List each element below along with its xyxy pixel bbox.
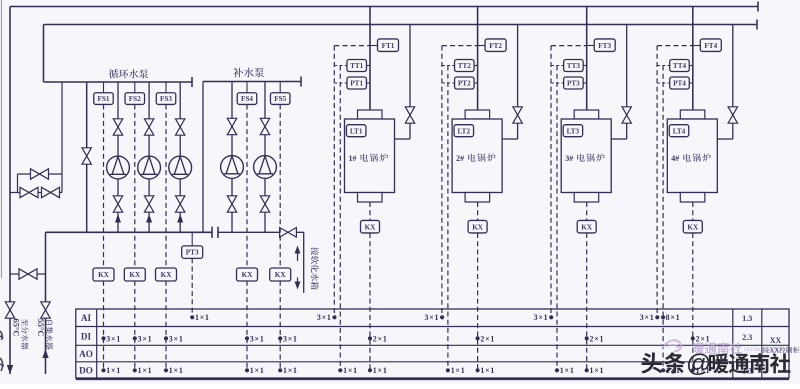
- svg-text:3×1: 3×1: [283, 334, 298, 343]
- svg-text:FS3: FS3: [160, 95, 172, 103]
- valve circ pump 2 discharge: [144, 119, 153, 135]
- svg-text:FS2: FS2: [129, 95, 141, 103]
- valve makeup pump 5 discharge: [260, 118, 269, 134]
- junction unit3 B DO 1x1: [555, 368, 559, 372]
- svg-text:1#: 1#: [349, 154, 357, 163]
- wire circ pump branch 2: [148, 82, 150, 232]
- circ header end tick: [191, 77, 193, 87]
- wire lower crossover: [10, 273, 46, 275]
- svg-text:TT3: TT3: [567, 62, 581, 70]
- boiler unit 4 dashed enclosure top: [657, 45, 693, 47]
- valve makeup pump 5 suction: [260, 196, 269, 212]
- boiler 1 top flange: [358, 110, 383, 119]
- junction unit4 B DO 1x1: [661, 368, 665, 372]
- pump P5 makeup: [254, 156, 277, 179]
- relay KX pump 4: [237, 268, 258, 281]
- valve bypass bottom 1: [20, 187, 38, 197]
- signal bus wire unit 3: [556, 66, 558, 371]
- valve bypass top: [31, 169, 49, 179]
- crop artifact faint line left: [1, 0, 3, 278]
- flow transmitter FT3: [594, 39, 615, 52]
- svg-text:1×1: 1×1: [451, 366, 466, 375]
- signal wire boiler 2 KX: [477, 202, 479, 221]
- svg-text:KX: KX: [161, 271, 173, 279]
- relay KX boiler 4: [683, 220, 702, 233]
- stub TT4 right: [689, 65, 693, 67]
- svg-text:TT1: TT1: [350, 62, 364, 70]
- junction FS DO 1x1: [164, 368, 168, 372]
- junction boiler3 DI 2x1: [585, 336, 589, 340]
- boiler 4 body: [667, 119, 717, 193]
- svg-text:KX: KX: [275, 271, 287, 279]
- svg-text:LT4: LT4: [673, 127, 686, 135]
- wire boiler 4 outlet pipe: [692, 7, 694, 111]
- wire makeup pump branch 4: [231, 82, 233, 233]
- table label column divider: [96, 309, 98, 378]
- stub FS4: [246, 82, 248, 93]
- stub TT3 left: [551, 65, 564, 67]
- svg-text:PT4: PT4: [673, 80, 686, 88]
- svg-text:3×1: 3×1: [425, 313, 440, 322]
- arrow supply down: [7, 365, 13, 374]
- watermark toutiao 头条@暖通南社: [641, 352, 662, 373]
- valve makeup pump 4 discharge: [227, 118, 236, 134]
- stub TT1 left: [334, 65, 347, 67]
- temperature transmitter TT2: [455, 60, 475, 72]
- bypass loop top wire: [18, 173, 63, 175]
- pressure transmitter PT3: [564, 77, 584, 89]
- wire makeup pump branch 5: [264, 82, 266, 233]
- svg-text:PT1: PT1: [350, 80, 363, 88]
- level transmitter LT4: [669, 125, 689, 137]
- makeup header end tick: [300, 77, 302, 87]
- stub PT2 left: [442, 82, 455, 84]
- pressure transmitter PT2: [455, 77, 475, 89]
- wire boiler 3 inlet elbow: [611, 138, 627, 140]
- return header end tick: [756, 20, 758, 30]
- junction boiler2 KX DO 1x1: [476, 368, 480, 372]
- pressure transmitter PT4: [670, 77, 690, 89]
- svg-text:@: @: [686, 350, 711, 378]
- junction FS DI 3x1: [278, 336, 282, 340]
- stub TT4 left: [657, 65, 670, 67]
- faint watermark swirl: [662, 340, 681, 351]
- svg-text:KX: KX: [242, 271, 254, 279]
- stub PT1 right: [367, 82, 371, 84]
- arrow flow up branch 2: [146, 214, 152, 223]
- wire boiler 1 inlet elbow: [395, 138, 411, 140]
- level transmitter LT3: [563, 125, 583, 137]
- stub PT3 right: [583, 82, 587, 84]
- signal wire boiler 1 KX: [369, 202, 371, 221]
- svg-text:1×1: 1×1: [169, 366, 184, 375]
- relay KX boiler 3: [577, 220, 596, 233]
- junction unit3 AI 3x1: [549, 315, 553, 319]
- wire boiler 2 outlet pipe: [477, 7, 479, 111]
- boiler unit 1 dashed enclosure top: [334, 45, 370, 47]
- valve boiler 1 inlet: [405, 107, 414, 123]
- wire makeup suction header: [218, 231, 304, 233]
- wire pump discharge riser: [43, 25, 45, 83]
- pump P4 makeup: [221, 156, 244, 179]
- faint watermark text: [693, 342, 742, 354]
- wire return pipe 55C left: [45, 232, 47, 374]
- svg-text:FT1: FT1: [382, 42, 395, 50]
- svg-text:FS1: FS1: [98, 95, 110, 103]
- svg-text:4#: 4#: [671, 154, 679, 163]
- wire makeup discharge drop pipe: [202, 82, 204, 233]
- svg-text:AI: AI: [81, 313, 92, 323]
- valve boiler 4 inlet: [728, 107, 737, 123]
- table row line 2: [76, 326, 789, 328]
- boiler unit 2 dashed enclosure left: [441, 46, 443, 317]
- svg-text:XX: XX: [770, 336, 782, 345]
- stub FS2: [134, 82, 136, 93]
- stub TT1 right: [367, 65, 371, 67]
- temperature transmitter TT1: [347, 60, 367, 72]
- svg-text:65°C: 65°C: [12, 319, 22, 337]
- wire return header: [44, 24, 758, 26]
- junction FS DO 1x1: [133, 368, 137, 372]
- junction FS DI 3x1: [133, 336, 137, 340]
- junction unit4 AI 8x1: [661, 315, 665, 319]
- temperature transmitter TT4: [670, 60, 690, 72]
- valve circ pump 3 suction: [176, 196, 185, 212]
- terminal table frame: [76, 309, 789, 378]
- stub TT2 left: [442, 65, 455, 67]
- wire circ suction header: [46, 231, 213, 233]
- svg-text:3×1: 3×1: [640, 313, 655, 322]
- flow switch FS4: [237, 93, 257, 105]
- svg-text:(ID:nuantong): (ID:nuantong): [744, 347, 781, 353]
- valve makeup tank isolation: [280, 228, 297, 238]
- signal bus wire unit 4: [662, 66, 664, 371]
- label 自集水器: [46, 320, 53, 349]
- svg-text:1×1: 1×1: [250, 366, 265, 375]
- boiler unit 1 dashed enclosure left: [333, 46, 335, 317]
- level transmitter LT1: [346, 125, 366, 137]
- boiler unit 4 dashed enclosure left: [656, 46, 658, 317]
- junction boiler3 KX DO 1x1: [585, 368, 589, 372]
- svg-text:KX: KX: [472, 223, 484, 231]
- stub FS5: [279, 82, 281, 93]
- svg-text:FT3: FT3: [598, 42, 611, 50]
- svg-text:TT4: TT4: [673, 62, 687, 70]
- signal bus wire unit 2: [447, 66, 449, 371]
- svg-text:3×1: 3×1: [534, 313, 549, 322]
- stub PT3 left: [551, 82, 564, 84]
- valve circ pump 3 discharge: [176, 119, 185, 135]
- valve crossover: [19, 269, 37, 279]
- junction FS DO 1x1: [101, 368, 105, 372]
- signal wire FS2 to terminals: [134, 105, 136, 269]
- label 接软化水箱: [311, 247, 319, 289]
- flow switch FS1: [94, 93, 114, 105]
- valve return pipe isolation: [41, 302, 50, 318]
- pump P1 circulating: [107, 156, 130, 179]
- junction unit2 B DO 1x1: [446, 368, 450, 372]
- stub FT2: [478, 45, 486, 47]
- flow transmitter FT2: [485, 39, 506, 52]
- junction unit4 AI 3x1: [655, 315, 659, 319]
- boiler unit 3 dashed enclosure top: [551, 45, 587, 47]
- svg-text:3×1: 3×1: [106, 334, 121, 343]
- wire boiler 2 inlet elbow: [502, 138, 517, 140]
- pump P2 circulating: [138, 156, 161, 179]
- boiler 1 bottom flange: [358, 193, 383, 203]
- table bottom thick edge: [76, 377, 789, 380]
- relay KX pump 1: [93, 268, 114, 281]
- svg-text:1×1: 1×1: [283, 366, 298, 375]
- junction PT3 AI 1x1: [190, 315, 194, 319]
- svg-text:2×1: 2×1: [373, 334, 388, 343]
- svg-text:LT1: LT1: [350, 127, 363, 135]
- valve circ pump 1 discharge: [113, 119, 122, 135]
- svg-text:2.3: 2.3: [742, 333, 752, 342]
- signal wire FS5 to terminals: [279, 105, 281, 269]
- boiler 3 bottom flange: [574, 193, 599, 203]
- wire boiler 1 outlet pipe: [369, 7, 371, 111]
- svg-text:55°C: 55°C: [36, 319, 46, 337]
- svg-text:3×1: 3×1: [169, 334, 184, 343]
- wire makeup pump discharge header: [203, 81, 301, 83]
- svg-text:TT2: TT2: [458, 62, 472, 70]
- wire boiler 3 inlet pipe: [626, 25, 628, 140]
- stub PT3: [191, 232, 193, 246]
- svg-text:3×1: 3×1: [250, 334, 265, 343]
- pressure transmitter PT3: [182, 246, 203, 259]
- svg-text:PT3: PT3: [567, 80, 580, 88]
- arrow return up: [42, 349, 48, 358]
- svg-text:DO: DO: [79, 366, 93, 376]
- bypass loop left wire: [17, 174, 19, 193]
- wire circ pump branch 1: [117, 82, 119, 232]
- boiler 2 bottom flange: [465, 193, 490, 203]
- stub FS3: [165, 82, 167, 93]
- svg-text:3×1: 3×1: [138, 334, 153, 343]
- svg-text:2×1: 2×1: [480, 334, 495, 343]
- bypass loop bottom wire: [10, 192, 62, 194]
- wire boiler 2 inlet pipe: [517, 25, 519, 140]
- junction FS DO 1x1: [245, 368, 249, 372]
- svg-text:2×1: 2×1: [590, 334, 605, 343]
- arrow to tank up: [295, 246, 301, 254]
- pressure transmitter PT1: [347, 77, 367, 89]
- svg-text:PT2: PT2: [458, 80, 471, 88]
- svg-text:3#: 3#: [565, 154, 573, 163]
- junction boiler4 DI 2x1: [691, 336, 695, 340]
- crop artifact mark 2: [0, 358, 4, 371]
- signal wire boiler 3 KX: [586, 202, 588, 221]
- valve supply pipe isolation: [5, 302, 14, 318]
- junction FS DI 3x1: [245, 336, 249, 340]
- svg-text:KX: KX: [365, 223, 377, 231]
- svg-text:1.3: 1.3: [742, 314, 752, 323]
- stub TT3 right: [583, 65, 587, 67]
- valve circ pump 1 suction: [113, 196, 122, 212]
- valve balance pipe: [82, 148, 91, 164]
- wire boiler 1 inlet pipe: [409, 25, 411, 140]
- boiler 3 top flange: [574, 110, 599, 119]
- bypass right riser wire: [61, 82, 63, 193]
- relay KX boiler 2: [468, 220, 487, 233]
- valve boiler 2 inlet: [513, 107, 522, 123]
- valve makeup pump 4 suction: [227, 196, 236, 212]
- junction boiler4 KX DO 1x1: [691, 368, 695, 372]
- wire supply pipe 65C left: [9, 7, 11, 375]
- label circulating pumps 循环水泵: [109, 69, 118, 78]
- signal wire boiler 4 KX: [692, 202, 694, 221]
- wire boiler 4 inlet elbow: [717, 138, 733, 140]
- svg-text:1×1: 1×1: [106, 366, 121, 375]
- junction FS DO 1x1: [278, 368, 282, 372]
- svg-text:1×1: 1×1: [560, 366, 575, 375]
- table right divider 2: [761, 309, 763, 378]
- junction FS DI 3x1: [101, 336, 105, 340]
- relay KX pump 2: [124, 268, 145, 281]
- stub FT1: [370, 45, 378, 47]
- flow switch FS5: [270, 93, 290, 105]
- stub FT4: [693, 45, 701, 47]
- stub PT4 right: [689, 82, 693, 84]
- pump P3 circulating: [169, 156, 192, 179]
- stub TT2 right: [474, 65, 478, 67]
- svg-text:LT3: LT3: [567, 127, 580, 135]
- svg-text:3×1: 3×1: [317, 313, 332, 322]
- signal wire PT3: [191, 258, 193, 317]
- svg-text:1×1: 1×1: [373, 366, 388, 375]
- flow transmitter FT1: [378, 39, 399, 52]
- stub FS1: [103, 82, 105, 93]
- svg-text:KX: KX: [581, 223, 593, 231]
- signal wire FS1 to terminals: [103, 105, 105, 269]
- boiler unit 2 dashed enclosure top: [442, 45, 478, 47]
- wire circulating pump discharge header: [44, 81, 193, 83]
- svg-text:1×1: 1×1: [138, 366, 153, 375]
- signal wire FS3 to terminals: [165, 105, 167, 269]
- stub FT3: [587, 45, 595, 47]
- boiler 4 top flange: [680, 110, 705, 119]
- svg-text:AO: AO: [79, 349, 93, 359]
- junction boiler1 DI 2x1: [368, 336, 372, 340]
- flow switch FS2: [125, 93, 145, 105]
- svg-text:LT2: LT2: [458, 127, 471, 135]
- svg-text:2#: 2#: [456, 154, 464, 163]
- junction FS DI 3x1: [164, 336, 168, 340]
- relay KX boiler 1: [361, 220, 380, 233]
- label 55C: [36, 319, 46, 337]
- boiler 2 top flange: [465, 110, 490, 119]
- signal wire FS4 to terminals: [246, 105, 248, 269]
- boiler 3 body: [561, 119, 611, 193]
- crop artifact mark 1: [0, 331, 4, 340]
- wire circ pump branch 3: [179, 82, 181, 232]
- table row line 4: [76, 361, 762, 363]
- boiler unit 3 dashed enclosure left: [550, 46, 552, 317]
- junction boiler1 KX DO 1x1: [368, 368, 372, 372]
- arrow flow up branch 1: [115, 214, 121, 223]
- union tick right: [217, 227, 219, 238]
- wire balance pipe header-to-suction: [86, 82, 88, 232]
- level transmitter LT2: [454, 125, 474, 137]
- svg-text:1×1: 1×1: [343, 366, 358, 375]
- junction unit1 AI 3x1: [332, 315, 336, 319]
- flow switch FS3: [156, 93, 176, 105]
- svg-text:DI: DI: [81, 332, 92, 342]
- wire boiler 4 inlet pipe: [732, 25, 734, 140]
- label makeup pumps 补水泵: [233, 68, 243, 78]
- boiler 2 body: [452, 119, 502, 193]
- boiler 1 body: [345, 119, 395, 193]
- supply header end tick: [757, 2, 759, 12]
- temperature transmitter TT3: [564, 60, 584, 72]
- svg-text:FT4: FT4: [704, 42, 717, 50]
- stub PT4 left: [657, 82, 670, 84]
- svg-text:PT3: PT3: [186, 249, 199, 257]
- wire drop to softened water tank: [303, 232, 305, 293]
- relay KX pump 5: [270, 268, 291, 281]
- flow transmitter FT4: [700, 39, 721, 52]
- table row line 3: [76, 344, 789, 346]
- table right divider 1: [732, 309, 734, 378]
- signal bus wire unit 1: [339, 66, 341, 371]
- svg-text:1×1: 1×1: [195, 313, 210, 322]
- svg-text:FT2: FT2: [489, 42, 502, 50]
- wire supply header 65C: [10, 6, 758, 8]
- junction boiler2 DI 2x1: [476, 336, 480, 340]
- svg-text:KX: KX: [98, 271, 110, 279]
- label 至分水器: [21, 319, 28, 350]
- valve circ pump 2 suction: [144, 196, 153, 212]
- arrow to tank down: [297, 278, 299, 283]
- junction unit1 B DO 1x1: [338, 368, 342, 372]
- arrow flow up branch 3: [177, 214, 183, 223]
- svg-text:1×1: 1×1: [590, 366, 605, 375]
- svg-text:FS4: FS4: [241, 95, 253, 103]
- stub PT1 left: [334, 82, 347, 84]
- union tick left: [211, 227, 213, 238]
- stub PT2 right: [474, 82, 478, 84]
- valve bypass bottom 2: [42, 187, 60, 197]
- relay KX pump 3: [156, 268, 177, 281]
- svg-text:2×1: 2×1: [696, 334, 711, 343]
- svg-text:KX: KX: [129, 271, 141, 279]
- svg-text:KX: KX: [687, 223, 699, 231]
- valve boiler 3 inlet: [622, 107, 631, 123]
- svg-text:8×1: 8×1: [666, 313, 681, 322]
- junction unit2 AI 3x1: [440, 315, 444, 319]
- svg-text:FS5: FS5: [274, 95, 286, 103]
- wire boiler 3 outlet pipe: [586, 7, 588, 111]
- boiler 4 bottom flange: [680, 193, 705, 203]
- label 65C: [12, 319, 22, 337]
- svg-text:1×1: 1×1: [480, 366, 495, 375]
